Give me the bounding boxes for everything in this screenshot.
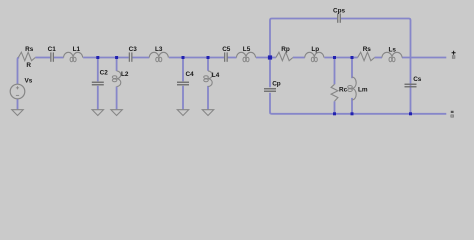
svg-text:Lm: Lm (358, 87, 368, 94)
svg-text:L3: L3 (155, 46, 163, 53)
svg-text:Cps: Cps (333, 8, 346, 15)
svg-text:L2: L2 (121, 71, 129, 78)
svg-text:Rs: Rs (363, 46, 372, 53)
svg-text:Ls: Ls (389, 46, 397, 53)
svg-text:Cp: Cp (272, 80, 281, 87)
svg-text:C1: C1 (48, 46, 57, 53)
svg-text:R: R (26, 62, 31, 69)
svg-text:Rc: Rc (339, 87, 348, 94)
svg-text:C2: C2 (100, 70, 109, 77)
svg-text:L5: L5 (243, 46, 251, 53)
svg-text:Rp: Rp (281, 46, 290, 53)
svg-text:L4: L4 (212, 72, 220, 79)
svg-text:Rs: Rs (25, 46, 34, 53)
svg-text:C4: C4 (186, 71, 195, 78)
svg-text:Cs: Cs (413, 76, 422, 83)
svg-text:Lp: Lp (311, 46, 319, 53)
svg-text:C3: C3 (129, 46, 138, 53)
svg-text:Vs: Vs (25, 78, 33, 85)
svg-text:C5: C5 (222, 46, 231, 53)
svg-text:L1: L1 (73, 46, 81, 53)
